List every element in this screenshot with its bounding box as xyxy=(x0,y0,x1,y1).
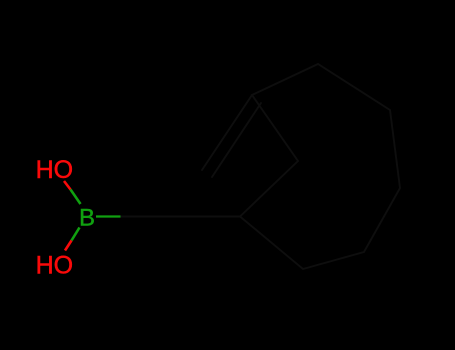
wire double bond line 2 xyxy=(212,103,261,177)
bond B-C horizontal (green) xyxy=(96,215,121,217)
svg-text:HO: HO xyxy=(36,251,74,279)
bond B-O lower, B half (green) xyxy=(72,228,80,241)
carbon skeleton xyxy=(120,64,400,269)
ring outline xyxy=(240,64,400,269)
wire C-C horizontal chain xyxy=(120,216,240,218)
bond B-O upper, O half (red) xyxy=(64,181,71,190)
wire double bond line 1 xyxy=(202,95,252,170)
bond B-O lower, O half (red) xyxy=(65,241,72,251)
svg-text:B: B xyxy=(79,204,95,231)
bond B-O upper, B half (green) xyxy=(71,190,81,205)
svg-text:HO: HO xyxy=(36,156,74,184)
